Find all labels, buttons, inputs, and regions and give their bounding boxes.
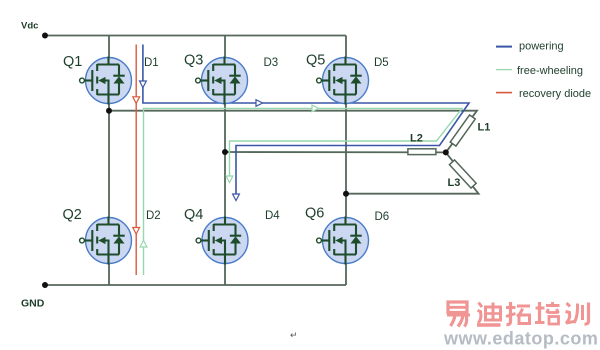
svg-text:Vdc: Vdc [21,21,38,32]
svg-text:recovery diode: recovery diode [519,88,591,100]
svg-text:D4: D4 [265,210,280,222]
svg-text:Q2: Q2 [63,207,82,223]
svg-text:D3: D3 [264,57,279,69]
svg-text:free-wheeling: free-wheeling [517,65,583,77]
svg-text:Q3: Q3 [184,53,203,69]
svg-text:GND: GND [21,298,45,310]
svg-text:↵: ↵ [290,330,298,340]
svg-text:D5: D5 [374,57,389,69]
svg-text:D1: D1 [144,57,159,69]
svg-text:www.edatop.com: www.edatop.com [443,329,598,349]
svg-text:D6: D6 [375,211,390,223]
svg-text:Q5: Q5 [306,53,325,69]
svg-text:L1: L1 [478,122,491,134]
svg-text:Q6: Q6 [305,206,324,222]
svg-text:L3: L3 [448,177,461,189]
svg-text:D2: D2 [146,210,161,222]
svg-text:L2: L2 [410,133,423,145]
svg-text:powering: powering [519,41,564,53]
svg-text:Q4: Q4 [184,207,203,223]
svg-text:Q1: Q1 [63,54,82,70]
